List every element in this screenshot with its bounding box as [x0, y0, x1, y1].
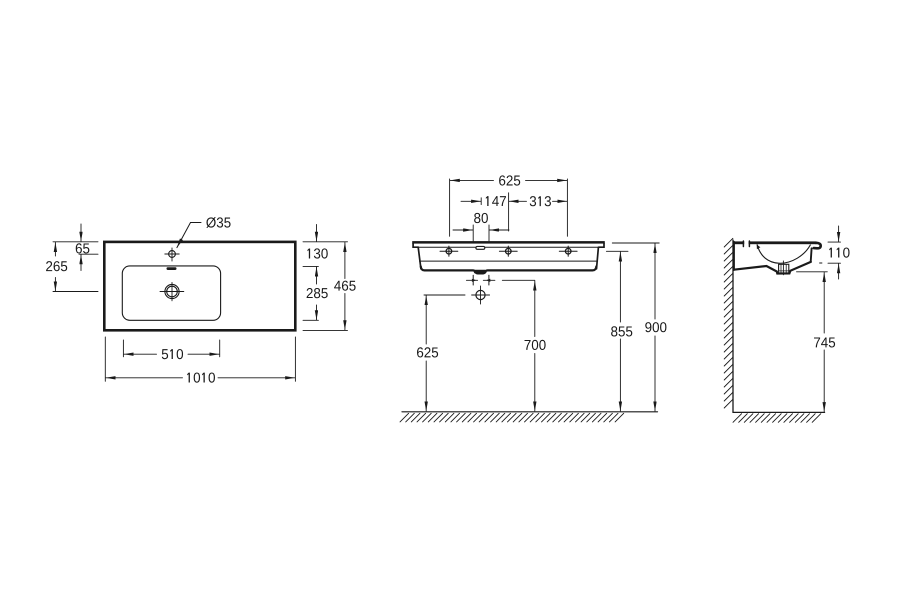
dimension 110 (front edge height)	[828, 226, 850, 279]
dimension 745 (clearance under basin)	[797, 272, 836, 412]
extension line for 625 height	[424, 294, 465, 296]
dimension 625 (height of siphon)	[417, 296, 438, 411]
dimension 900 (height of rim)	[612, 243, 666, 411]
drain hole (plan view)	[160, 282, 184, 300]
body right edge (front view)	[597, 247, 599, 268]
dimension 855 (height of holes)	[606, 251, 632, 411]
wall hatching (side view)	[724, 238, 733, 408]
floor hatching (front view)	[400, 413, 624, 422]
floor line (side view)	[733, 411, 825, 413]
rim front lip hook (side view)	[814, 243, 821, 249]
dimension 130 (bowl offset from back)	[303, 225, 348, 285]
body left edge (front view)	[418, 247, 421, 268]
hanger slot ticks (side view)	[742, 241, 744, 247]
dimension 510 (bowl width)	[123, 340, 219, 359]
under-rim line (front view)	[414, 246, 604, 248]
dimension 65 (faucet hole from back edge)	[53, 224, 98, 271]
mounting hole mark at x=448.9 (front view)	[440, 246, 458, 256]
floor hatching (side view)	[733, 414, 821, 423]
drain fitting (side view)	[779, 261, 789, 275]
label Ø35 with leader arrow	[177, 217, 231, 247]
rim right end cap	[599, 243, 604, 247]
basin front edge (side view)	[810, 248, 813, 261]
dimension 625 (outer holes spacing)	[450, 175, 567, 185]
inner bowl curve (side view)	[757, 245, 810, 263]
faucet hole Ø35 (plan view)	[165, 248, 179, 261]
extension lines for top dimensions (front view)	[449, 179, 451, 236]
dimension 285 (bowl depth front-back)	[303, 288, 328, 320]
curve arrow mark (side view)	[757, 245, 761, 250]
floor line (front view)	[402, 411, 658, 413]
dimension 700 (height)	[525, 281, 546, 411]
basin bottom profile (side view)	[734, 262, 811, 274]
body bottom with drain boss (front view)	[421, 267, 597, 274]
mounting hole mark at x=508.3 (front view)	[499, 246, 517, 256]
dimension 147	[461, 196, 506, 206]
rim left end cap	[413, 243, 418, 247]
dimension 313	[509, 196, 567, 206]
dimension 265 (drain from back edge)	[46, 242, 98, 291]
drain boss fill (front view)	[474, 270, 487, 274]
extension line for 700 height	[502, 279, 535, 281]
basin rim bar (front view)	[412, 241, 605, 244]
mounting hole mark at x=568.2 (front view)	[559, 246, 577, 256]
overflow slot (front view)	[476, 246, 485, 249]
inner bowl (plan view)	[122, 266, 220, 320]
dimension 80	[453, 213, 509, 230]
dimension 1010 (overall width)	[105, 337, 295, 383]
basin back edge against wall (side view)	[733, 242, 735, 270]
small tick at basin front bottom (side view)	[820, 262, 822, 264]
dimension 465 (overall depth)	[303, 242, 356, 330]
overflow slot (plan view)	[167, 267, 177, 270]
wall line (side view)	[732, 240, 734, 412]
drain boss extension ticks and arrows (front view)	[466, 275, 495, 285]
siphon outlet circle (front view)	[472, 286, 490, 304]
inner step line (front view)	[420, 260, 598, 262]
basin rim bar (side view)	[733, 241, 817, 244]
washbasin outer rim (plan view)	[104, 242, 295, 330]
